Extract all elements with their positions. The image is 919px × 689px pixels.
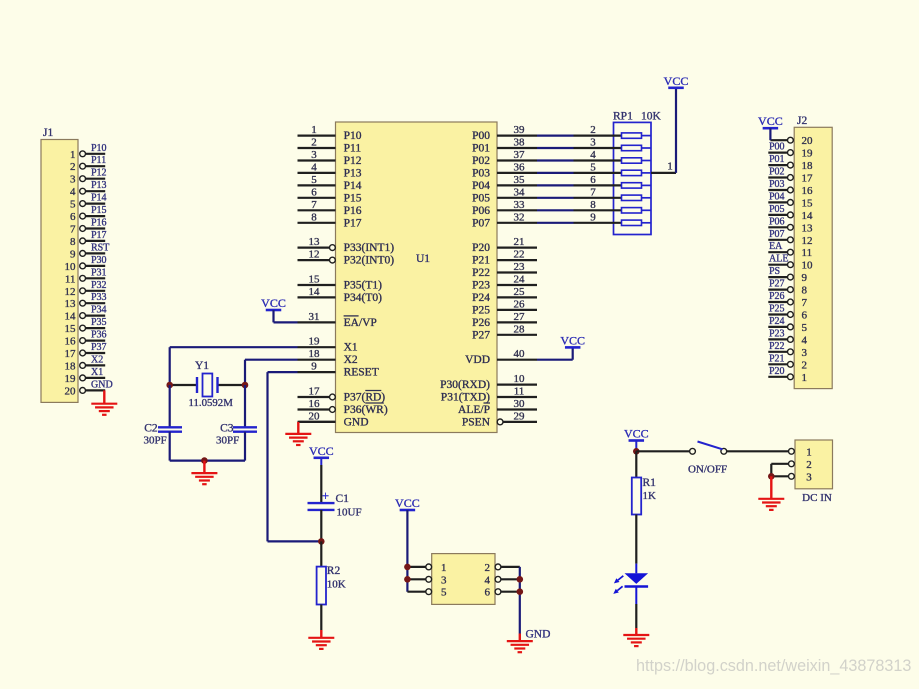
svg-text:13: 13 xyxy=(65,298,77,310)
J1 pin 15 / net P35 xyxy=(65,317,107,335)
svg-text:R2: R2 xyxy=(327,565,341,577)
wire node to R2 xyxy=(320,541,322,566)
svg-text:1: 1 xyxy=(802,372,808,384)
svg-text:11: 11 xyxy=(65,273,76,285)
svg-text:18: 18 xyxy=(309,348,321,360)
switch ON/OFF xyxy=(688,442,727,476)
svg-text:P06: P06 xyxy=(769,216,785,227)
svg-text:X1: X1 xyxy=(91,367,103,378)
svg-text:X1: X1 xyxy=(344,342,358,354)
svg-text:P06: P06 xyxy=(472,205,490,217)
svg-text:P37(RD): P37(RD) xyxy=(344,392,386,404)
U1 pin 17 (P37(RD)) xyxy=(298,386,386,404)
svg-text:C3: C3 xyxy=(220,423,234,435)
U1 pin 28 (P27) xyxy=(472,323,537,341)
svg-text:P16: P16 xyxy=(344,205,362,217)
svg-text:12: 12 xyxy=(65,286,76,298)
svg-text:PS: PS xyxy=(769,266,780,277)
RP1 pin 2 resistor element xyxy=(574,124,652,138)
svg-text:P32(INT0): P32(INT0) xyxy=(344,255,395,267)
svg-text:9: 9 xyxy=(311,361,317,373)
svg-text:P11: P11 xyxy=(91,155,106,166)
svg-text:P22: P22 xyxy=(769,341,785,352)
svg-text:P21: P21 xyxy=(472,255,490,267)
svg-text:GND: GND xyxy=(91,379,113,390)
svg-text:6: 6 xyxy=(802,310,808,322)
ground (U1 GND) xyxy=(285,422,311,445)
svg-text:1: 1 xyxy=(667,160,673,172)
svg-text:10K: 10K xyxy=(327,579,346,591)
svg-text:11: 11 xyxy=(802,247,813,259)
svg-text:P04: P04 xyxy=(769,191,785,202)
svg-text:P27: P27 xyxy=(769,279,785,290)
node: crystal left junction xyxy=(166,382,173,389)
svg-text:17: 17 xyxy=(309,386,321,398)
J2 pin 12 / net P07 xyxy=(768,229,812,247)
svg-text:5: 5 xyxy=(590,161,596,173)
svg-text:18: 18 xyxy=(65,360,77,372)
svg-text:2: 2 xyxy=(802,359,808,371)
svg-text:J2: J2 xyxy=(797,115,807,127)
J1 pin 14 / net P34 xyxy=(65,305,107,323)
svg-text:P10: P10 xyxy=(344,130,362,142)
svg-text:7: 7 xyxy=(590,186,596,198)
node: DC IN gnd junction xyxy=(768,473,775,480)
svg-text:7: 7 xyxy=(70,224,76,236)
ground (crystal) xyxy=(191,461,217,485)
resistor R2 10K xyxy=(317,565,346,605)
svg-text:P26: P26 xyxy=(769,291,785,302)
wire VCC to C1 xyxy=(320,465,322,503)
node: crystal right junction xyxy=(242,382,249,389)
svg-text:20: 20 xyxy=(65,385,77,397)
svg-text:3: 3 xyxy=(802,347,808,359)
svg-text:P25: P25 xyxy=(769,304,785,315)
U1 pin 6 (P15) xyxy=(298,186,362,204)
svg-text:P20: P20 xyxy=(769,366,785,377)
svg-text:C2: C2 xyxy=(144,423,158,435)
svg-text:3: 3 xyxy=(311,149,317,161)
svg-text:6: 6 xyxy=(485,587,491,599)
svg-text:15: 15 xyxy=(65,323,77,335)
svg-text:VDD: VDD xyxy=(465,354,490,366)
svg-text:P03: P03 xyxy=(472,167,490,179)
svg-text:2: 2 xyxy=(806,459,812,471)
U1 pin 38 (P01) xyxy=(472,137,537,155)
wire C1 to node xyxy=(320,510,322,542)
svg-text:VCC: VCC xyxy=(560,333,585,347)
svg-text:29: 29 xyxy=(514,410,526,422)
svg-text:P15: P15 xyxy=(91,205,107,216)
connector ISP 6-pin header xyxy=(432,554,495,605)
RP1 pin 4 resistor element xyxy=(574,149,652,163)
connector J2 xyxy=(794,115,832,389)
ISP pin 4 xyxy=(485,574,520,586)
J1 pin 11 / net P31 xyxy=(65,267,107,285)
svg-text:X2: X2 xyxy=(91,354,103,365)
J1 pin 1 / net P10 xyxy=(70,143,107,161)
svg-text:P23: P23 xyxy=(472,280,490,292)
node: VCC/R1/switch junction xyxy=(633,448,640,455)
power VCC (C1) xyxy=(309,444,334,465)
U1 pin 2 (P11) xyxy=(298,137,362,155)
J2 pin 15 / net P04 xyxy=(768,191,813,209)
svg-text:P30(RXD): P30(RXD) xyxy=(440,379,490,391)
svg-text:P12: P12 xyxy=(344,155,362,167)
connector J1 xyxy=(41,127,113,402)
J2 pin 7 / net P26 xyxy=(768,291,807,309)
node: ISP gnd junction pin6 xyxy=(517,588,524,595)
power VCC (VDD) xyxy=(560,333,585,347)
svg-text:32: 32 xyxy=(514,211,525,223)
svg-text:P26: P26 xyxy=(472,317,490,329)
power VCC (LED branch) xyxy=(624,427,649,452)
RP1 pin 3 resistor element xyxy=(574,137,652,151)
svg-text:P00: P00 xyxy=(769,142,785,153)
U1 pin 27 (P26) xyxy=(472,311,537,329)
svg-text:26: 26 xyxy=(514,298,526,310)
U1 pin 3 (P12) xyxy=(298,149,362,167)
svg-text:23: 23 xyxy=(514,261,526,273)
svg-text:VCC: VCC xyxy=(309,444,334,458)
ISP pin 1 xyxy=(407,562,446,574)
svg-text:P17: P17 xyxy=(91,230,107,241)
svg-text:P21: P21 xyxy=(769,353,785,364)
svg-text:P24: P24 xyxy=(769,316,785,327)
svg-text:11.0592M: 11.0592M xyxy=(189,397,234,409)
svg-text:ALE/P: ALE/P xyxy=(458,404,490,416)
svg-text:13: 13 xyxy=(309,236,321,248)
J1 pin 13 / net P33 xyxy=(65,292,107,310)
svg-text:14: 14 xyxy=(65,311,77,323)
svg-text:28: 28 xyxy=(514,323,526,335)
svg-text:2: 2 xyxy=(70,161,76,173)
U1 pin 14 (P34(T0)) xyxy=(298,286,383,304)
svg-text:P01: P01 xyxy=(472,143,490,155)
svg-text:P12: P12 xyxy=(91,168,107,179)
J1 pin 19 / net X1 xyxy=(65,367,106,385)
svg-text:27: 27 xyxy=(514,311,526,323)
svg-text:P30: P30 xyxy=(91,255,107,266)
DC IN pin 3 xyxy=(789,471,813,483)
RP1 pin 1 (common) wire to VCC xyxy=(651,88,676,173)
ground (DC IN) xyxy=(758,476,784,510)
svg-text:17: 17 xyxy=(65,348,77,360)
U1 pin 24 (P23) xyxy=(472,274,537,292)
svg-text:6: 6 xyxy=(590,174,596,186)
svg-text:P31(TXD): P31(TXD) xyxy=(441,392,490,404)
svg-text:3: 3 xyxy=(441,574,447,586)
U1 pin 21 (P20) xyxy=(472,236,537,254)
svg-text:P02: P02 xyxy=(472,155,490,167)
power VCC (EA/VP) xyxy=(261,296,286,322)
svg-text:9: 9 xyxy=(70,248,76,260)
J2 pin 6 / net P25 xyxy=(768,304,807,322)
J2 pin 9 / net PS xyxy=(768,266,807,284)
svg-text:7: 7 xyxy=(311,199,317,211)
svg-text:U1: U1 xyxy=(416,253,430,265)
svg-text:P36: P36 xyxy=(91,330,107,341)
svg-text:18: 18 xyxy=(802,160,814,172)
svg-text:P16: P16 xyxy=(91,218,107,229)
J2 pin 18 / net P01 xyxy=(768,154,813,172)
U1 pin 23 (P22) xyxy=(472,261,537,279)
U1 pin 37 (P02) xyxy=(472,149,537,167)
wire VCC to U1 pin31 xyxy=(274,321,298,323)
J2 pin 16 / net P03 xyxy=(768,179,813,197)
svg-text:11: 11 xyxy=(514,386,525,398)
op-amp U1 (8051 MCU) xyxy=(336,122,498,433)
svg-text:2: 2 xyxy=(485,562,491,574)
svg-text:P35(T1): P35(T1) xyxy=(344,280,383,292)
ground (J1 pin 20 GND) xyxy=(91,390,117,414)
wire C2 down to gnd rail xyxy=(169,432,171,461)
svg-text:3: 3 xyxy=(806,471,812,483)
svg-text:9: 9 xyxy=(802,272,808,284)
svg-text:5: 5 xyxy=(441,587,447,599)
svg-text:5: 5 xyxy=(802,322,808,334)
svg-text:20: 20 xyxy=(802,135,814,147)
resistor R1 1K xyxy=(632,477,656,515)
J2 pin 19 / net P00 xyxy=(768,142,813,160)
LED D1 xyxy=(613,564,648,604)
svg-text:16: 16 xyxy=(309,398,321,410)
svg-text:DC IN: DC IN xyxy=(802,492,832,504)
U1 pin 5 (P14) xyxy=(298,174,362,192)
svg-text:P13: P13 xyxy=(91,180,107,191)
J2 pin 2 / net P21 xyxy=(768,353,807,371)
J1 pin 2 / net P11 xyxy=(70,155,106,173)
wire RESET (U1 pin9 down to R2/C1 node) xyxy=(268,372,322,541)
svg-text:RP1: RP1 xyxy=(613,111,633,123)
svg-text:15: 15 xyxy=(802,197,814,209)
node: ISP VCC junction pin1 xyxy=(404,564,411,571)
svg-text:10: 10 xyxy=(65,261,77,273)
J1 pin 6 / net P15 xyxy=(70,205,107,223)
svg-text:P23: P23 xyxy=(769,328,785,339)
svg-text:P14: P14 xyxy=(91,193,107,204)
svg-text:P37: P37 xyxy=(91,342,107,353)
svg-text:34: 34 xyxy=(514,186,526,198)
svg-text:8: 8 xyxy=(802,285,808,297)
connector DC IN xyxy=(795,440,833,504)
node: gnd rail junction xyxy=(201,457,208,464)
J1 pin 16 / net P36 xyxy=(65,330,107,348)
svg-text:31: 31 xyxy=(309,311,320,323)
U1 pin 13 (P33(INT1)) xyxy=(298,236,395,254)
wire crystal left leg down to C2 xyxy=(169,385,171,427)
J1 pin 7 / net P16 xyxy=(70,218,107,236)
J1 pin 9 / net RST xyxy=(70,242,109,260)
svg-text:7: 7 xyxy=(802,297,808,309)
svg-text:P05: P05 xyxy=(769,204,785,215)
J1 pin 12 / net P32 xyxy=(65,280,107,298)
U1 pin 16 (P36(WR)) xyxy=(298,398,388,416)
node: C1/R2/RESET junction xyxy=(318,538,325,545)
svg-text:16: 16 xyxy=(802,185,814,197)
wire R1 to LED xyxy=(635,515,637,564)
wire switch to DC IN pin1 xyxy=(727,450,789,452)
ground (R2) xyxy=(308,630,334,649)
J2 pin 5 / net P24 xyxy=(768,316,807,334)
svg-text:20: 20 xyxy=(309,410,321,422)
svg-text:15: 15 xyxy=(309,274,321,286)
J1 pin 3 / net P12 xyxy=(70,168,107,186)
svg-text:22: 22 xyxy=(514,249,525,261)
svg-text:1K: 1K xyxy=(643,490,657,502)
svg-text:1: 1 xyxy=(311,124,317,136)
U1 pin 39 (P00) xyxy=(472,124,537,142)
svg-text:1: 1 xyxy=(441,562,447,574)
J2 pin 3 / net P22 xyxy=(768,341,807,359)
svg-text:14: 14 xyxy=(309,286,321,298)
svg-text:P27: P27 xyxy=(472,329,490,341)
wire X2 (U1 pin18 to crystal right) xyxy=(245,360,298,385)
wire VCC node to switch xyxy=(636,450,689,452)
wire R2 to ground xyxy=(320,605,322,631)
svg-text:10UF: 10UF xyxy=(337,507,362,519)
wire X1 (U1 pin19 to crystal left) xyxy=(170,347,298,385)
svg-text:C1: C1 xyxy=(336,493,350,505)
svg-text:40: 40 xyxy=(514,348,526,360)
DC IN pin 2 xyxy=(789,459,812,471)
U1 pin 10 (P30(RXD)) xyxy=(440,373,537,391)
svg-text:P15: P15 xyxy=(344,192,362,204)
J1 pin 17 / net P37 xyxy=(65,342,107,360)
svg-text:P25: P25 xyxy=(472,304,490,316)
svg-text:30PF: 30PF xyxy=(216,435,239,447)
svg-text:PSEN: PSEN xyxy=(462,416,491,428)
wire LED to ground xyxy=(635,604,637,628)
svg-text:39: 39 xyxy=(514,124,526,136)
node: ISP gnd junction pin4 xyxy=(517,576,524,583)
svg-text:GND: GND xyxy=(526,629,551,641)
svg-text:4: 4 xyxy=(802,334,808,346)
svg-text:19: 19 xyxy=(802,148,814,160)
svg-text:14: 14 xyxy=(802,210,814,222)
svg-text:8: 8 xyxy=(590,199,596,211)
J2 pin 11 / net EA xyxy=(768,241,812,259)
U1 pin 29 (PSEN) xyxy=(462,410,537,428)
U1 pin 25 (P24) xyxy=(472,286,537,304)
svg-text:EA/VP: EA/VP xyxy=(344,317,377,329)
svg-text:12: 12 xyxy=(802,235,813,247)
svg-text:1: 1 xyxy=(70,149,76,161)
RP1 pin 7 resistor element xyxy=(574,186,652,200)
svg-text:8: 8 xyxy=(311,211,317,223)
svg-text:P24: P24 xyxy=(472,292,490,304)
U1 pin 35 (P04) xyxy=(472,174,537,192)
J1 pin 18 / net X2 xyxy=(65,354,106,372)
svg-text:4: 4 xyxy=(485,574,491,586)
svg-text:P10: P10 xyxy=(91,143,107,154)
svg-text:12: 12 xyxy=(309,249,320,261)
svg-text:P33: P33 xyxy=(91,292,107,303)
J2 pin 17 / net P02 xyxy=(768,167,813,185)
svg-text:VCC: VCC xyxy=(261,296,286,310)
svg-text:6: 6 xyxy=(70,211,76,223)
ground (LED) xyxy=(623,628,649,646)
svg-text:P36(WR): P36(WR) xyxy=(344,404,388,416)
svg-text:P34: P34 xyxy=(91,305,107,316)
resistor pack RP1 10K xyxy=(613,111,662,235)
svg-text:GND: GND xyxy=(344,416,369,428)
wire U1 pin20 GND xyxy=(298,421,335,423)
svg-text:ON/OFF: ON/OFF xyxy=(688,464,727,476)
svg-text:P05: P05 xyxy=(472,192,490,204)
svg-text:RST: RST xyxy=(91,242,109,253)
svg-text:P00: P00 xyxy=(472,130,490,142)
U1 pin 40 (VDD) xyxy=(465,348,537,366)
svg-text:RESET: RESET xyxy=(344,367,379,379)
U1 pin 18 (X2) xyxy=(298,348,358,366)
crystal Y1 11.0592M xyxy=(170,360,245,409)
svg-text:19: 19 xyxy=(309,336,321,348)
J1 pin 20 / net GND xyxy=(65,379,113,397)
svg-text:VCC: VCC xyxy=(395,496,420,510)
svg-text:VCC: VCC xyxy=(624,427,649,441)
svg-text:38: 38 xyxy=(514,137,526,149)
svg-text:6: 6 xyxy=(311,186,317,198)
U1 pin 8 (P17) xyxy=(298,211,362,229)
svg-text:J1: J1 xyxy=(43,127,53,139)
svg-text:EA: EA xyxy=(769,241,783,252)
svg-text:VCC: VCC xyxy=(758,114,783,128)
J1 pin 4 / net P13 xyxy=(70,180,107,198)
capacitor C3 30PF xyxy=(216,423,257,447)
wire U1 VDD to VCC xyxy=(537,347,573,359)
svg-text:P07: P07 xyxy=(472,217,490,229)
svg-text:2: 2 xyxy=(590,124,596,136)
svg-text:P32: P32 xyxy=(91,280,107,291)
J2 pin 10 / net ALE xyxy=(768,254,813,272)
svg-text:30PF: 30PF xyxy=(144,435,167,447)
svg-text:P01: P01 xyxy=(769,154,785,165)
ISP pin 3 xyxy=(407,574,447,586)
svg-text:Y1: Y1 xyxy=(195,360,209,372)
svg-text:21: 21 xyxy=(514,236,525,248)
capacitor C2 30PF xyxy=(144,423,183,447)
J2 pin 20 / net VCC xyxy=(770,135,813,147)
wire crystal right leg down to C3 xyxy=(244,385,246,427)
svg-text:13: 13 xyxy=(802,222,814,234)
ISP pin 6 xyxy=(485,587,520,599)
svg-text:1: 1 xyxy=(806,446,812,458)
svg-text:+: + xyxy=(322,489,329,503)
svg-text:2: 2 xyxy=(311,137,317,149)
svg-text:P11: P11 xyxy=(344,143,362,155)
U1 pin 1 (P10) xyxy=(298,124,362,142)
J2 pin 13 / net P06 xyxy=(768,216,813,234)
svg-text:16: 16 xyxy=(65,336,77,348)
svg-text:P13: P13 xyxy=(344,167,362,179)
U1 pin 9 (RESET) xyxy=(298,361,379,379)
node: ISP VCC junction pin3 xyxy=(404,576,411,583)
U1 pin 7 (P16) xyxy=(298,199,362,217)
svg-text:5: 5 xyxy=(70,199,76,211)
ground (ISP) xyxy=(507,634,533,653)
U1 pin 26 (P25) xyxy=(472,298,537,316)
RP1 pin 8 resistor element xyxy=(574,199,652,213)
svg-text:30: 30 xyxy=(514,398,526,410)
U1 pin 11 (P31(TXD)) xyxy=(441,386,537,404)
U1 pin 4 (P13) xyxy=(298,161,362,179)
U1 pin 31 (EA/VP) xyxy=(298,311,377,329)
svg-text:10: 10 xyxy=(514,373,526,385)
power VCC (ISP header) xyxy=(395,496,420,592)
svg-text:4: 4 xyxy=(590,149,596,161)
J2 pin 14 / net P05 xyxy=(768,204,813,222)
